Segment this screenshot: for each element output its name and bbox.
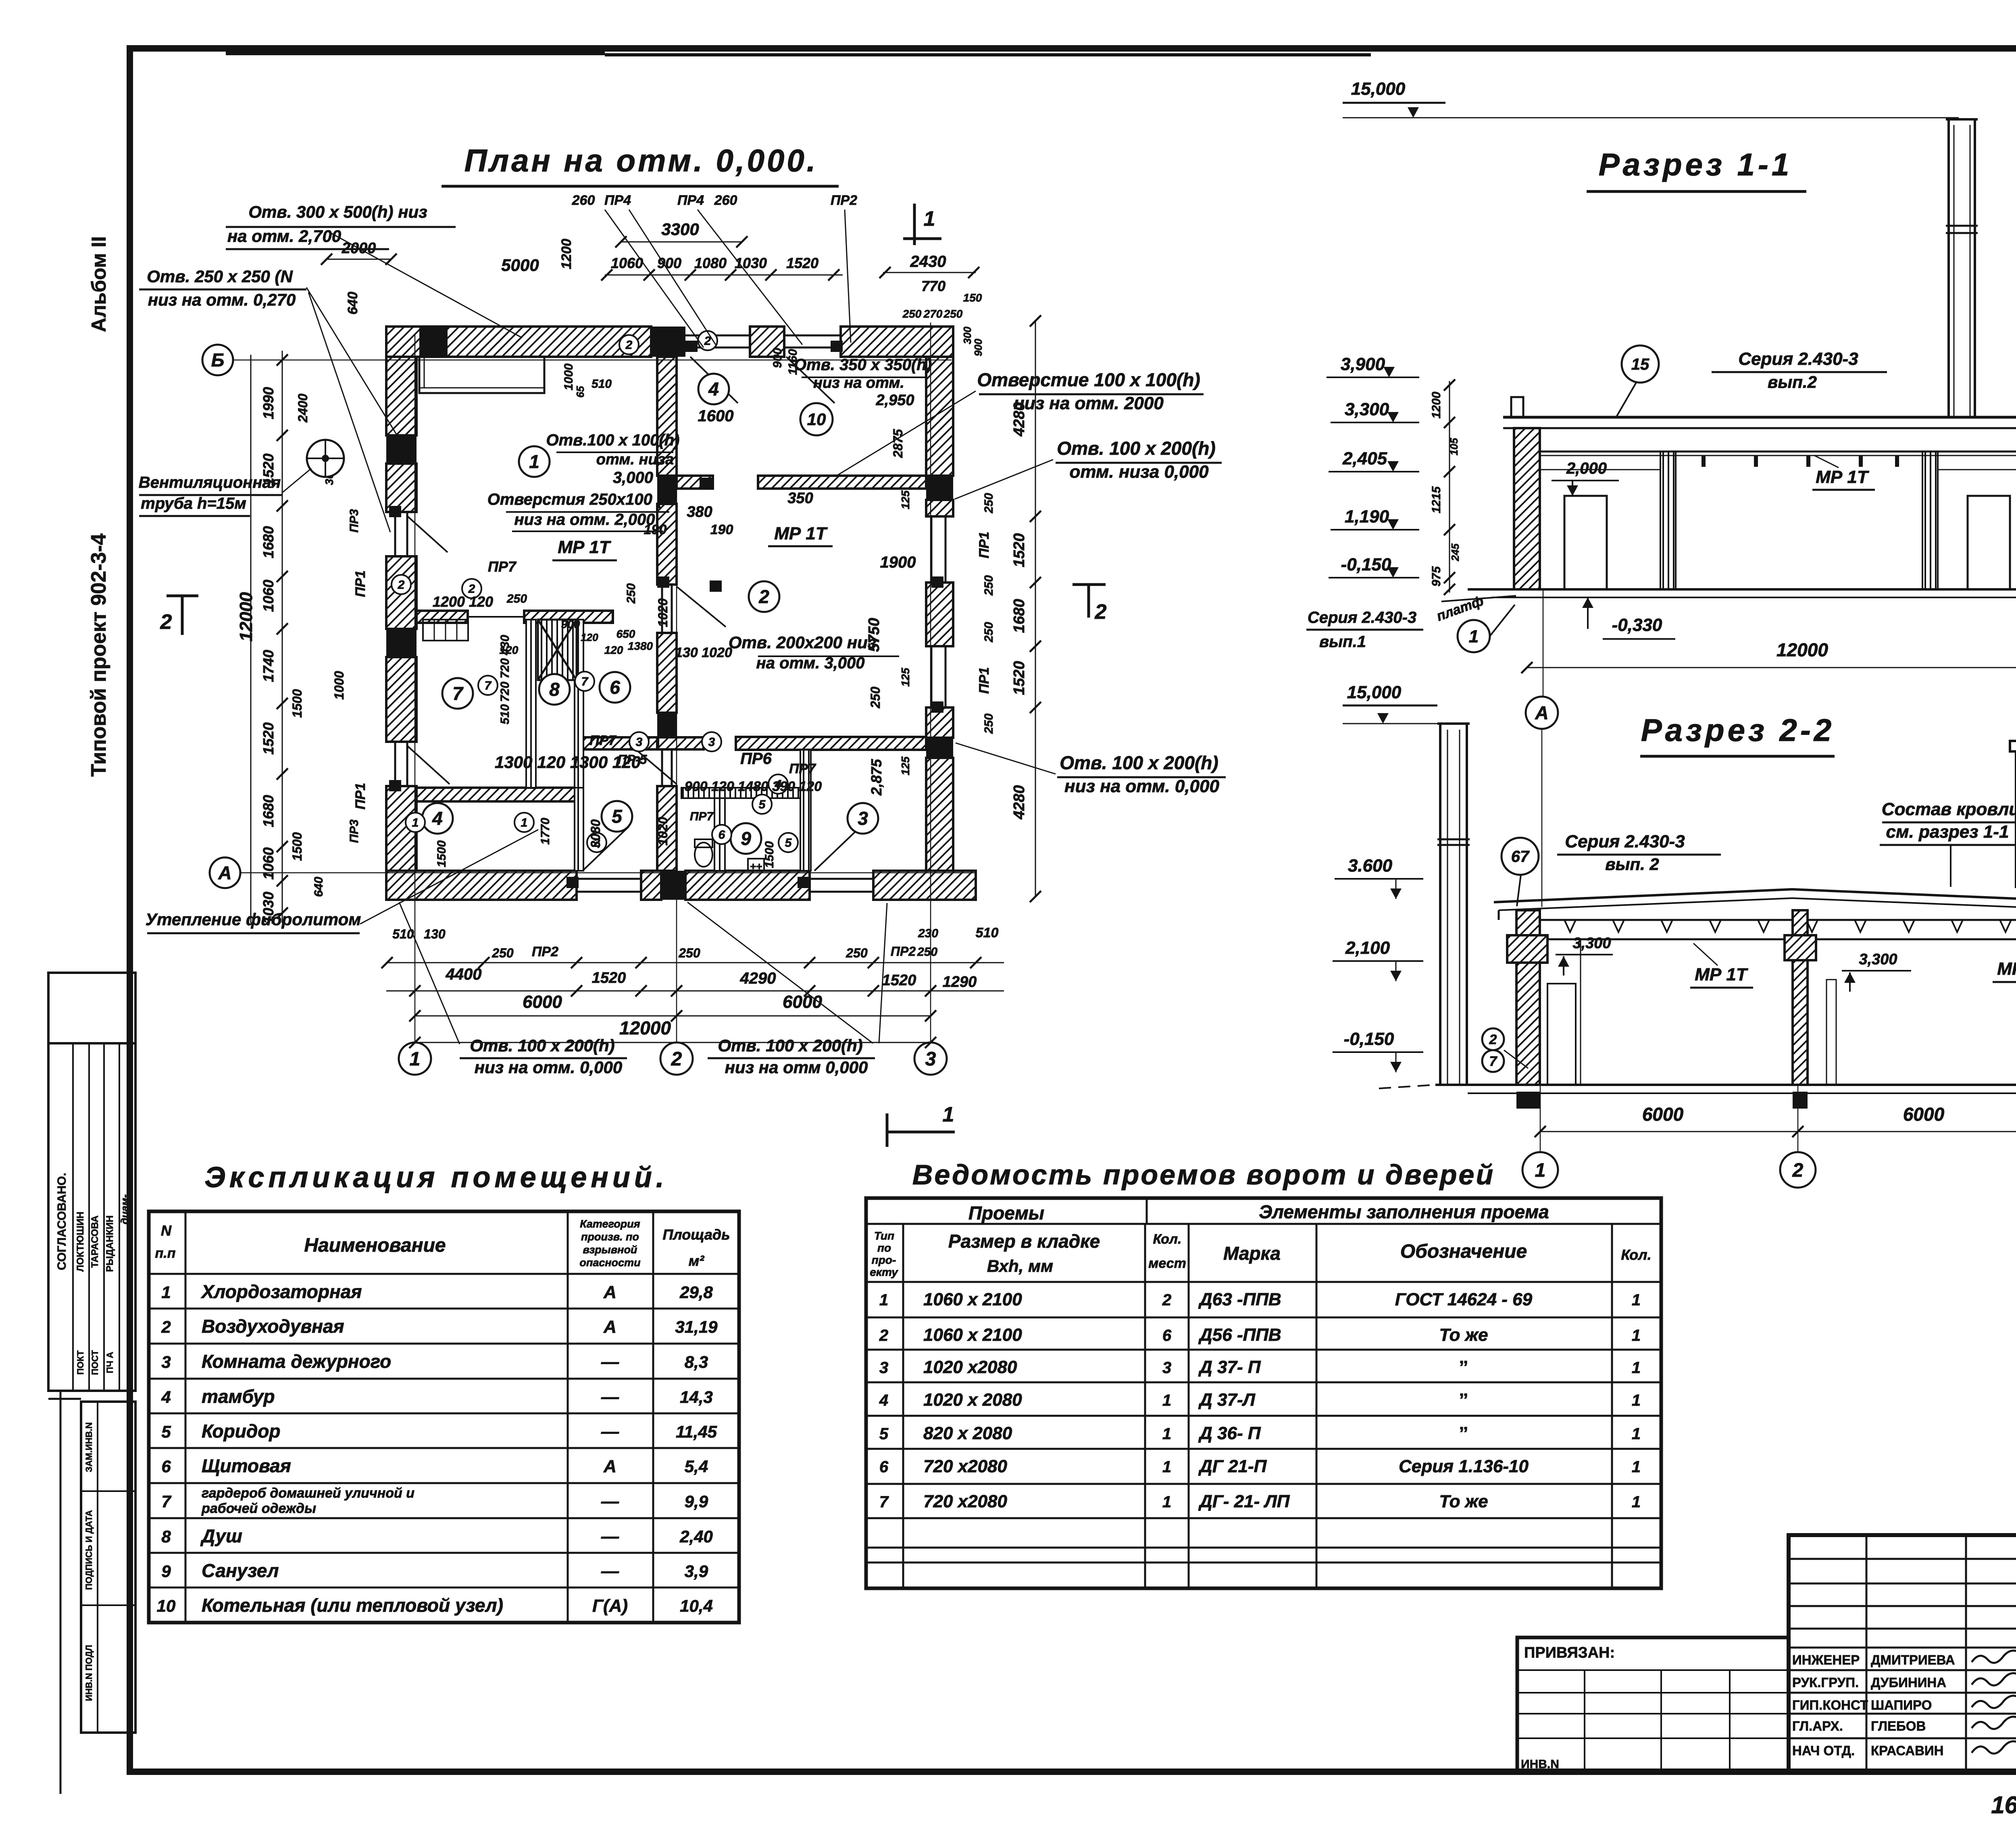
svg-text:2: 2: [1162, 1291, 1171, 1309]
svg-text:Площадь: Площадь: [662, 1226, 730, 1243]
svg-text:РЫДАНКИН: РЫДАНКИН: [104, 1215, 115, 1272]
svg-text:2,100: 2,100: [1345, 938, 1390, 958]
svg-text:900 120 1480 390 120: 900 120 1480 390 120: [685, 779, 822, 794]
svg-text:ПР7: ПР7: [589, 733, 617, 748]
svg-text:250: 250: [982, 493, 996, 514]
svg-text:120: 120: [581, 631, 598, 643]
svg-text:1500: 1500: [290, 689, 304, 718]
vent pipe section 2-2: [1439, 724, 1441, 1085]
svg-text:—: —: [601, 1561, 619, 1581]
svg-text:Отв.100 х 100(h): Отв.100 х 100(h): [546, 431, 680, 449]
svg-text:250: 250: [917, 945, 937, 959]
svg-text:Г(А): Г(А): [592, 1596, 628, 1616]
svg-text:1500: 1500: [763, 841, 776, 868]
attachment box ПРИВЯЗАН: [1517, 1637, 1789, 1773]
svg-text:4: 4: [432, 808, 443, 829]
axis lines: [233, 360, 952, 361]
svg-text:9: 9: [161, 1562, 171, 1581]
svg-text:640: 640: [345, 292, 360, 315]
svg-text:Душ: Душ: [200, 1525, 242, 1546]
svg-text:1020: 1020: [656, 598, 670, 627]
svg-text:3: 3: [925, 1049, 936, 1070]
svg-text:1000: 1000: [562, 363, 575, 390]
svg-text:Утепление фибролитом: Утепление фибролитом: [146, 910, 361, 929]
svg-text:Проемы: Проемы: [968, 1203, 1044, 1223]
svg-text:произв. по: произв. по: [581, 1231, 639, 1243]
svg-text:7: 7: [879, 1493, 889, 1511]
svg-text:130 1020: 130 1020: [675, 645, 732, 660]
plan exterior left wall: [386, 357, 417, 435]
svg-text:3080: 3080: [588, 819, 603, 848]
svg-text:1: 1: [1632, 1425, 1641, 1443]
svg-text:16637-02: 16637-02: [1991, 1791, 2016, 1818]
svg-text:820 х 2080: 820 х 2080: [923, 1423, 1012, 1443]
svg-text:Отв. 100 х 200(h): Отв. 100 х 200(h): [718, 1036, 862, 1055]
svg-text:2,950: 2,950: [875, 392, 914, 409]
svg-text:ПР4: ПР4: [604, 193, 631, 208]
svg-text:ПОДПИСЬ И ДАТА: ПОДПИСЬ И ДАТА: [84, 1510, 94, 1590]
svg-text:МР 1Т: МР 1Т: [558, 537, 611, 557]
svg-text:3300: 3300: [661, 220, 699, 239]
svg-text:1520: 1520: [592, 970, 626, 986]
svg-text:ЗАМ.ИНВ.N: ЗАМ.ИНВ.N: [84, 1422, 94, 1472]
svg-text:Марка: Марка: [1223, 1243, 1281, 1264]
svg-text:ШАПИРО: ШАПИРО: [1871, 1698, 1932, 1712]
svg-text:8: 8: [161, 1527, 171, 1546]
svg-text:ГИП.КОНСТ: ГИП.КОНСТ: [1792, 1698, 1868, 1712]
svg-text:3,000: 3,000: [613, 469, 653, 487]
svg-text:Котельная (или тепловой узел): Котельная (или тепловой узел): [202, 1595, 503, 1616]
svg-text:1020: 1020: [656, 817, 670, 845]
svg-text:низ на отм.: низ на отм.: [813, 375, 904, 391]
svg-text:6000: 6000: [523, 992, 562, 1012]
svg-text:ПР4: ПР4: [677, 193, 704, 208]
svg-text:Разрез 1-1: Разрез 1-1: [1599, 147, 1792, 182]
svg-text:ДГ- 21- ЛП: ДГ- 21- ЛП: [1198, 1492, 1290, 1511]
svg-text:250: 250: [625, 583, 638, 604]
svg-text:12000: 12000: [619, 1017, 671, 1038]
svg-text:отм. низа: отм. низа: [596, 451, 674, 468]
svg-text:низ на отм. 0,000: низ на отм. 0,000: [1064, 776, 1219, 796]
svg-text:Д 37-Л: Д 37-Л: [1198, 1390, 1256, 1410]
svg-text:770: 770: [921, 278, 946, 294]
svg-text:на отм. 3,000: на отм. 3,000: [756, 654, 865, 672]
svg-text:—: —: [601, 1387, 619, 1407]
svg-text:Ведомость проемов ворот и д: Ведомость проемов ворот и дверей: [912, 1159, 1495, 1190]
svg-text:250: 250: [982, 714, 996, 734]
svg-text:2,000: 2,000: [1566, 460, 1607, 477]
partition walls: [526, 620, 536, 788]
svg-text:1770: 1770: [539, 818, 552, 845]
bubble stack 2/7: [1482, 1028, 1504, 1050]
svg-text:720: 720: [498, 682, 512, 702]
svg-text:510: 510: [498, 704, 512, 724]
section 1-1 left dim chain: [1449, 381, 1450, 593]
opening type circles: [619, 335, 639, 354]
svg-text:2: 2: [161, 1317, 171, 1336]
svg-text:отм. низа 0,000: отм. низа 0,000: [1069, 462, 1209, 482]
svg-text:ГЛ.АРХ.: ГЛ.АРХ.: [1792, 1719, 1843, 1733]
svg-text:см. разрез 1-1: см. разрез 1-1: [1886, 822, 2009, 842]
axis bubble Б: [202, 345, 233, 375]
svg-text:Д63 -ППВ: Д63 -ППВ: [1198, 1290, 1281, 1309]
svg-text:Щитовая: Щитовая: [202, 1455, 291, 1476]
svg-text:250: 250: [902, 308, 922, 320]
svg-text:250: 250: [678, 946, 700, 960]
svg-text:1200: 1200: [1430, 391, 1443, 418]
svg-text:6: 6: [1162, 1327, 1172, 1344]
svg-text:Альбом II: Альбом II: [87, 236, 110, 332]
svg-text:125: 125: [899, 756, 912, 775]
svg-text:1: 1: [521, 816, 528, 830]
section 1-1 floor and ground: [1468, 588, 2016, 591]
svg-text:Хлордозаторная: Хлордозаторная: [200, 1281, 362, 1302]
svg-text:1520: 1520: [1011, 661, 1028, 695]
svg-text:вып.1: вып.1: [1319, 633, 1366, 651]
svg-text:Комната дежурного: Комната дежурного: [202, 1351, 391, 1372]
svg-text:Вентиляционная: Вентиляционная: [139, 474, 281, 491]
svg-text:3: 3: [161, 1352, 171, 1371]
door swings: [690, 357, 738, 403]
svg-text:1380: 1380: [628, 640, 653, 652]
svg-text:Кол.: Кол.: [1621, 1246, 1651, 1263]
svg-text:5,4: 5,4: [685, 1457, 708, 1476]
svg-text:4400: 4400: [446, 965, 482, 983]
svg-text:Обозначение: Обозначение: [1400, 1241, 1527, 1262]
svg-text:260: 260: [714, 193, 737, 208]
svg-text:Серия 2.430-3: Серия 2.430-3: [1738, 349, 1858, 369]
svg-text:1: 1: [1162, 1493, 1171, 1511]
svg-text:105: 105: [1448, 438, 1460, 456]
svg-text:2430: 2430: [910, 253, 946, 270]
svg-text:1,190: 1,190: [1345, 507, 1389, 526]
svg-text:м²: м²: [689, 1253, 705, 1269]
svg-text:6000: 6000: [783, 992, 822, 1012]
svg-text:1680: 1680: [1011, 599, 1028, 633]
svg-text:6000: 6000: [1903, 1104, 1945, 1125]
svg-text:Отв. 200х200 низ: Отв. 200х200 низ: [729, 633, 876, 652]
svg-text:1740: 1740: [260, 650, 277, 682]
svg-text:То же: То же: [1439, 1492, 1488, 1511]
svg-text:5: 5: [161, 1422, 171, 1441]
svg-text:975: 975: [1430, 566, 1443, 587]
svg-text:Отверстия 250х100 (N: Отверстия 250х100 (N: [487, 491, 675, 508]
svg-text:Коридор: Коридор: [202, 1421, 280, 1442]
svg-text:КРАСАВИН: КРАСАВИН: [1871, 1743, 1944, 1758]
svg-text:1060 х 2100: 1060 х 2100: [923, 1325, 1022, 1345]
svg-text:1680: 1680: [260, 526, 277, 558]
svg-text:ПР3: ПР3: [348, 820, 361, 843]
svg-text:2: 2: [671, 1049, 682, 1070]
svg-text:1: 1: [924, 207, 935, 231]
svg-text:250: 250: [868, 687, 883, 709]
svg-text:250: 250: [506, 592, 527, 605]
svg-text:250: 250: [943, 308, 963, 320]
svg-text:ДМИТРИЕВА: ДМИТРИЕВА: [1871, 1652, 1955, 1667]
svg-text:1060 х 2100: 1060 х 2100: [923, 1290, 1022, 1309]
svg-text:1: 1: [529, 451, 539, 472]
svg-text:9: 9: [741, 828, 751, 849]
svg-text:НАЧ ОТД.: НАЧ ОТД.: [1792, 1743, 1855, 1758]
svg-text:5: 5: [759, 798, 766, 811]
left stamp boxes: [48, 973, 135, 1043]
section 2-2 walls: [1516, 910, 1540, 1085]
wall ПР6 below room 2: [658, 737, 704, 749]
svg-text:—: —: [601, 1527, 619, 1546]
svg-text:Кол.: Кол.: [1153, 1232, 1182, 1247]
svg-text:720: 720: [498, 658, 512, 678]
svg-text:1290: 1290: [943, 974, 977, 990]
svg-text:—: —: [601, 1422, 619, 1442]
svg-text:2: 2: [758, 586, 769, 607]
svg-text:1: 1: [1632, 1327, 1641, 1344]
svg-text:МР 1Т: МР 1Т: [774, 524, 828, 543]
svg-text:1: 1: [1469, 626, 1479, 646]
chimney section 2-2: [2010, 741, 2016, 751]
svg-text:ПОКТ: ПОКТ: [75, 1350, 85, 1375]
svg-text:труба h=15м: труба h=15м: [141, 495, 246, 512]
axis bubbles section 1-1: [1543, 589, 1544, 697]
axis bubble 2: [660, 1042, 693, 1075]
svg-text:3,300: 3,300: [1572, 935, 1611, 952]
section mark 2 left: [181, 596, 184, 635]
svg-text:Типовой проект 902-3-4: Типовой проект 902-3-4: [87, 533, 110, 776]
svg-text:низ на отм. 0,270: низ на отм. 0,270: [148, 290, 296, 309]
axis bubble 3: [914, 1042, 947, 1075]
svg-text:7: 7: [452, 683, 464, 704]
svg-text:ПР7: ПР7: [488, 558, 517, 575]
svg-text:1: 1: [1632, 1291, 1641, 1309]
svg-text:120: 120: [604, 644, 623, 656]
svg-text:250: 250: [982, 575, 996, 596]
svg-text:1020 х2080: 1020 х2080: [923, 1357, 1017, 1377]
axis bubble 1: [399, 1042, 431, 1075]
svg-text:2875: 2875: [891, 429, 905, 458]
section mark 2 right: [1073, 583, 1106, 586]
svg-text:1520: 1520: [260, 722, 277, 755]
svg-text:Отв. 100 х 200(h): Отв. 100 х 200(h): [1057, 438, 1215, 459]
roof slab with ribs: [1540, 919, 2016, 921]
svg-text:вып. 2: вып. 2: [1605, 855, 1659, 874]
svg-text:1020 х 2080: 1020 х 2080: [923, 1390, 1022, 1410]
svg-text:ИНВ.N ПОДЛ: ИНВ.N ПОДЛ: [84, 1645, 94, 1701]
room 7 niche: [423, 620, 468, 641]
section 2-2 doors/inner lines: [1547, 984, 1576, 1085]
svg-text:Категория: Категория: [580, 1218, 640, 1230]
svg-text:по: по: [877, 1242, 891, 1254]
sanitary fixtures: [695, 843, 712, 867]
vent pipe symbol: [307, 440, 344, 477]
svg-text:про-: про-: [872, 1254, 896, 1266]
svg-text:ЛОКТЮШИН: ЛОКТЮШИН: [75, 1212, 86, 1272]
interior wall above rooms 7-8: [417, 611, 468, 623]
svg-text:7: 7: [485, 679, 492, 693]
svg-text:Отв. 100 х 200(h): Отв. 100 х 200(h): [1060, 752, 1218, 773]
door leaf blocks: [685, 341, 698, 352]
svg-text:Д 37- П: Д 37- П: [1198, 1357, 1261, 1377]
svg-text:ПР2: ПР2: [891, 944, 916, 959]
section 2-2 roof: [1494, 889, 2016, 902]
section mark 1 bottom: [886, 1113, 889, 1147]
svg-text:Отв. 300 х 500(h) низ: Отв. 300 х 500(h) низ: [248, 202, 427, 221]
svg-text:Экспликация помещений.: Экспликация помещений.: [204, 1161, 668, 1194]
svg-text:120: 120: [500, 644, 519, 656]
svg-text:6: 6: [879, 1458, 889, 1476]
svg-text:Серия 1.136-10: Серия 1.136-10: [1399, 1456, 1529, 1476]
section 1-1 doors: [1564, 496, 1607, 589]
interior wall below room 10: [677, 476, 713, 489]
wall below rooms 7-8: [417, 788, 577, 801]
svg-text:А: А: [218, 862, 231, 883]
svg-text:мест: мест: [1148, 1256, 1186, 1271]
svg-text:Д56 -ППВ: Д56 -ППВ: [1198, 1325, 1281, 1345]
svg-text:15: 15: [1631, 356, 1649, 373]
svg-text:1520: 1520: [786, 255, 818, 271]
svg-text:29,8: 29,8: [679, 1283, 713, 1302]
svg-text:6: 6: [610, 677, 620, 698]
svg-text:1200: 1200: [559, 239, 574, 269]
svg-text:вып.2: вып.2: [1768, 372, 1817, 391]
svg-text:1: 1: [1632, 1493, 1641, 1511]
svg-text:900: 900: [657, 255, 681, 271]
svg-text:10: 10: [807, 410, 826, 429]
svg-text:4280: 4280: [1011, 402, 1028, 437]
svg-text:ПР1: ПР1: [977, 532, 992, 558]
svg-text:ПР2: ПР2: [831, 193, 857, 208]
svg-text:2: 2: [160, 610, 172, 634]
svg-text:А: А: [603, 1456, 616, 1476]
svg-text:720 х2080: 720 х2080: [923, 1492, 1008, 1511]
svg-text:2: 2: [625, 339, 633, 352]
svg-text:250: 250: [982, 622, 996, 643]
svg-text:5: 5: [879, 1425, 889, 1443]
svg-text:МР 1Т: МР 1Т: [1997, 959, 2016, 979]
svg-text:130: 130: [424, 927, 446, 941]
svg-text:ПР2: ПР2: [532, 944, 558, 959]
svg-text:3.600: 3.600: [1348, 856, 1393, 876]
svg-text:250: 250: [492, 946, 514, 960]
svg-text:ИНЖЕНЕР: ИНЖЕНЕР: [1792, 1652, 1860, 1667]
svg-text:МР 1Т: МР 1Т: [1695, 965, 1748, 984]
svg-text:ПРИВЯЗАН:: ПРИВЯЗАН:: [1524, 1644, 1615, 1661]
interior level arrows 3,300: [1558, 956, 1569, 967]
svg-text:65: 65: [574, 386, 586, 397]
svg-text:ПР3: ПР3: [348, 509, 361, 533]
svg-text:3,9: 3,9: [685, 1562, 708, 1581]
room number circles: [519, 446, 550, 477]
svg-text:Серия 2.430-3: Серия 2.430-3: [1565, 832, 1685, 851]
svg-text:ПР-5: ПР-5: [618, 752, 648, 767]
svg-text:10,4: 10,4: [680, 1596, 713, 1615]
svg-text:5: 5: [612, 806, 623, 827]
svg-text:1600: 1600: [698, 407, 734, 425]
svg-text:Отв. 100 х 200(h): Отв. 100 х 200(h): [470, 1036, 614, 1055]
svg-text:1: 1: [161, 1283, 171, 1302]
section 1-1 building: [1503, 416, 2016, 419]
svg-text:15,000: 15,000: [1351, 79, 1406, 99]
svg-text:1900: 1900: [880, 553, 916, 571]
svg-text:Воздуходувная: Воздуходувная: [202, 1316, 344, 1337]
axis bubbles top section 2-2: [1526, 697, 1558, 729]
svg-text:ПР7: ПР7: [690, 810, 714, 823]
plan left dimension chain: [282, 351, 283, 923]
svg-text:650: 650: [616, 628, 635, 640]
svg-text:720 х2080: 720 х2080: [923, 1456, 1008, 1476]
svg-text:РУК.ГРУП.: РУК.ГРУП.: [1792, 1675, 1859, 1690]
svg-text:ПР7: ПР7: [789, 761, 816, 776]
svg-text:2: 2: [1792, 1160, 1804, 1181]
svg-text:ДГ 21-П: ДГ 21-П: [1198, 1456, 1267, 1476]
svg-text:-0,150: -0,150: [1344, 1029, 1394, 1049]
svg-text:270: 270: [923, 308, 943, 320]
svg-text:Б: Б: [211, 350, 225, 370]
room circle 10: [800, 403, 833, 435]
svg-text:Серия 2.430-3: Серия 2.430-3: [1308, 609, 1416, 626]
svg-text:1060: 1060: [260, 847, 277, 880]
svg-text:12000: 12000: [1776, 639, 1828, 660]
svg-text:екту: екту: [870, 1266, 898, 1278]
svg-text:++: ++: [750, 860, 762, 872]
svg-text:3: 3: [1162, 1359, 1171, 1377]
svg-text:2: 2: [1095, 600, 1107, 624]
svg-text:1: 1: [1632, 1392, 1641, 1409]
svg-text:5750: 5750: [866, 618, 883, 652]
svg-text:А: А: [603, 1282, 616, 1302]
svg-text:2: 2: [879, 1327, 888, 1344]
svg-text:гардероб домашней уличной и: гардероб домашней уличной и: [202, 1486, 414, 1501]
svg-text:3: 3: [858, 808, 868, 829]
chimney section 1-1: [1947, 119, 1950, 417]
svg-text:230: 230: [918, 927, 938, 940]
svg-text:Отв. 250 х 250 (N: Отв. 250 х 250 (N: [147, 267, 293, 286]
svg-text:Элементы заполнения проема: Элементы заполнения проема: [1259, 1201, 1549, 1222]
svg-text:1200 120: 1200 120: [433, 593, 493, 610]
niche in room 1 below top wall: [419, 357, 544, 393]
svg-text:350: 350: [787, 490, 813, 507]
svg-text:-0,330: -0,330: [1612, 615, 1662, 635]
svg-text:7: 7: [581, 675, 589, 689]
svg-text:ˮ: ˮ: [1459, 1423, 1468, 1443]
svg-text:ПР1: ПР1: [353, 570, 368, 597]
svg-text:2: 2: [1489, 1032, 1497, 1047]
svg-text:1160: 1160: [786, 349, 800, 375]
svg-text:ИНВ.N: ИНВ.N: [1521, 1758, 1559, 1771]
plan exterior top wall: [386, 327, 651, 357]
svg-text:15,000: 15,000: [1347, 682, 1402, 702]
svg-text:150: 150: [963, 291, 982, 304]
svg-text:взрывной: взрывной: [583, 1244, 637, 1256]
svg-text:2: 2: [398, 578, 405, 592]
svg-text:1520: 1520: [882, 972, 916, 989]
svg-text:низ на отм 0,000: низ на отм 0,000: [725, 1058, 868, 1077]
axis bubble А: [210, 857, 240, 888]
svg-text:3,300: 3,300: [1345, 399, 1389, 419]
svg-text:900: 900: [561, 618, 580, 630]
svg-text:1990: 1990: [260, 387, 277, 419]
svg-text:3: 3: [879, 1359, 888, 1377]
svg-text:245: 245: [1449, 543, 1461, 562]
svg-text:Тип: Тип: [874, 1230, 894, 1242]
svg-text:1060: 1060: [260, 580, 277, 612]
svg-text:ПОСТ: ПОСТ: [90, 1350, 100, 1375]
svg-text:31,19: 31,19: [675, 1317, 718, 1336]
svg-text:Санузел: Санузел: [202, 1560, 279, 1581]
svg-text:Наименование: Наименование: [304, 1235, 446, 1256]
svg-text:План на отм. 0,000.: План на отм. 0,000.: [464, 143, 818, 178]
svg-text:5000: 5000: [501, 256, 539, 275]
svg-text:1: 1: [1632, 1359, 1641, 1377]
svg-text:—: —: [601, 1492, 619, 1511]
